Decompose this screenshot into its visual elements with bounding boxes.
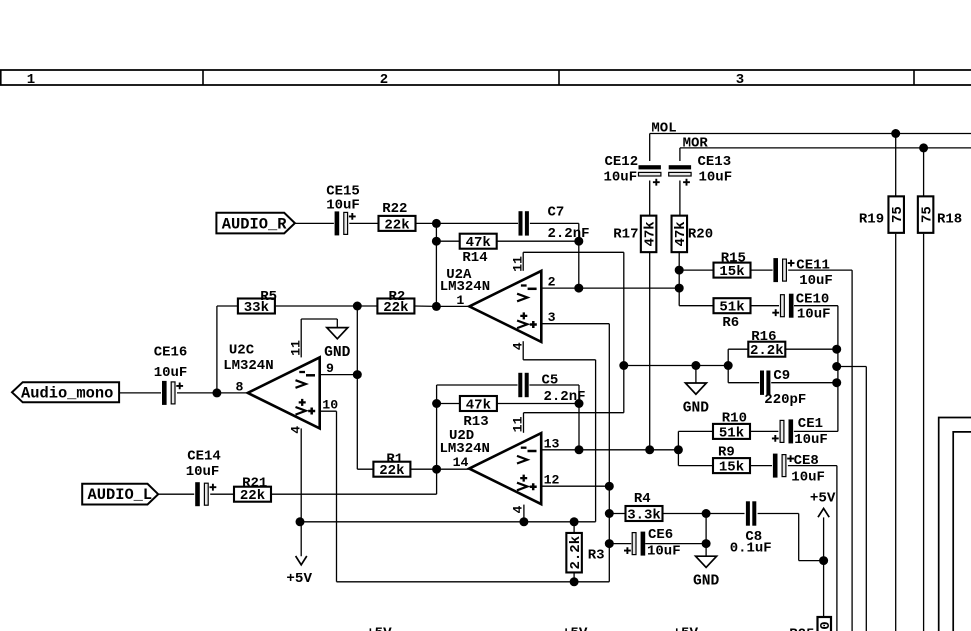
wire [823, 517, 825, 560]
junction [675, 284, 684, 293]
svg-text:15k: 15k [719, 460, 744, 476]
wire [728, 348, 748, 350]
svg-text:C9: C9 [773, 368, 790, 384]
resistor R21 [234, 476, 271, 505]
wire [320, 410, 337, 412]
wire [337, 581, 610, 583]
svg-text:R15: R15 [721, 250, 746, 266]
wire [541, 485, 609, 487]
svg-text:R18: R18 [937, 212, 962, 228]
wire [336, 319, 338, 328]
wire [436, 240, 459, 242]
wire [436, 222, 518, 224]
svg-text:4: 4 [288, 426, 303, 434]
svg-text:U2C: U2C [229, 342, 255, 358]
svg-text:0: 0 [818, 621, 834, 629]
svg-text:GND: GND [693, 574, 720, 590]
capacitor C8 [746, 501, 756, 525]
svg-text:CE6: CE6 [648, 527, 673, 543]
node pin13 [575, 445, 584, 454]
wire [679, 305, 713, 307]
op-amp U2D [469, 433, 541, 504]
svg-text:+5V: +5V [286, 571, 312, 587]
junction [519, 517, 528, 526]
svg-text:R16: R16 [751, 329, 776, 345]
power +5V (down arrow, left) [286, 556, 312, 587]
svg-text:R2: R2 [388, 289, 405, 305]
node Audio_mono [12, 382, 119, 402]
wire [216, 306, 218, 393]
wire [349, 222, 378, 224]
resistor R15 [714, 250, 751, 280]
svg-text:12: 12 [544, 473, 560, 488]
node +5V [819, 556, 828, 565]
capacitor C9 [760, 371, 770, 395]
wire [788, 269, 852, 271]
svg-text:CE16: CE16 [154, 344, 188, 360]
wire [678, 270, 680, 306]
node AUDIO_R [216, 213, 295, 234]
svg-text:2.2nF: 2.2nF [544, 389, 586, 405]
wire [523, 413, 525, 433]
svg-text:+5V: +5V [673, 626, 699, 631]
wire [578, 385, 580, 450]
resistor R5 [238, 289, 277, 316]
wire [497, 240, 579, 242]
svg-text:GND: GND [683, 401, 710, 417]
wire [578, 223, 580, 241]
wire [158, 493, 194, 495]
svg-text:10uF: 10uF [326, 197, 360, 213]
wire [530, 222, 579, 224]
wire [177, 392, 217, 394]
svg-text:R22: R22 [382, 201, 407, 217]
wire [357, 305, 377, 307]
node pin12 [605, 482, 614, 491]
node MOL [891, 129, 900, 138]
wire [799, 560, 824, 562]
capacitor CE8 [773, 454, 794, 478]
wire [541, 449, 678, 451]
wire [271, 493, 437, 495]
svg-text:10uF: 10uF [647, 544, 681, 560]
svg-text:C7: C7 [548, 204, 565, 220]
svg-text:R20: R20 [688, 226, 713, 242]
svg-text:LM324N: LM324N [223, 358, 273, 374]
svg-text:CE10: CE10 [796, 292, 830, 308]
svg-text:1: 1 [27, 72, 35, 88]
junction [724, 361, 733, 370]
wire [578, 241, 580, 288]
svg-text:4: 4 [511, 505, 526, 513]
wire [865, 367, 867, 631]
junction [691, 361, 700, 370]
wire [771, 382, 837, 384]
junction [832, 378, 841, 387]
svg-text:11: 11 [511, 416, 526, 432]
node GND net [619, 361, 628, 370]
wire [727, 349, 729, 365]
junction [432, 219, 441, 228]
wire [301, 318, 337, 320]
svg-text:C5: C5 [542, 373, 559, 389]
resistor R3 [566, 533, 604, 573]
wire [798, 514, 800, 561]
wire [437, 384, 518, 386]
wire [524, 412, 624, 414]
wire [750, 465, 772, 467]
wire [649, 134, 651, 162]
svg-text:R1: R1 [386, 452, 403, 468]
wire [573, 522, 575, 533]
svg-text:15k: 15k [719, 264, 744, 280]
junction [296, 517, 305, 526]
wire [275, 305, 357, 307]
junction [605, 509, 614, 518]
wire [836, 466, 838, 631]
wire [300, 521, 596, 523]
wire [679, 148, 681, 161]
junction [353, 302, 362, 311]
wire [661, 513, 706, 515]
svg-text:51k: 51k [719, 425, 744, 441]
capacitor CE14 [195, 482, 216, 506]
resistor R25 [789, 617, 834, 631]
junction [832, 362, 841, 371]
svg-text:3: 3 [736, 72, 744, 88]
svg-text:AUDIO_L: AUDIO_L [88, 486, 153, 504]
wire [415, 222, 436, 224]
wire [794, 305, 838, 307]
svg-text:2.2nF: 2.2nF [548, 226, 590, 242]
svg-text:R14: R14 [462, 250, 487, 266]
wire [609, 513, 626, 515]
wire [435, 223, 437, 306]
wire [823, 561, 825, 617]
resistor R22 [379, 201, 416, 234]
resistor R13 [460, 396, 497, 430]
wire [649, 181, 651, 216]
svg-text:10uF: 10uF [186, 464, 220, 480]
node connector box outer [939, 418, 971, 631]
wire [705, 514, 707, 544]
junction [832, 345, 841, 354]
svg-text:11: 11 [510, 256, 525, 272]
capacitor C7 [519, 211, 529, 235]
svg-text:2.2k: 2.2k [750, 343, 784, 359]
op-amp U2A [469, 271, 541, 342]
svg-text:3.3k: 3.3k [627, 507, 661, 523]
svg-text:10uF: 10uF [797, 306, 831, 322]
wire [624, 365, 728, 367]
node AUDIO_L [82, 484, 158, 505]
junction [432, 237, 441, 246]
wire [437, 403, 460, 405]
wire R19 top [895, 134, 897, 196]
svg-text:10uF: 10uF [799, 273, 833, 289]
svg-text:CE14: CE14 [187, 448, 221, 464]
wire [523, 505, 525, 522]
svg-text:GND: GND [324, 345, 351, 361]
resistor R9 [713, 444, 750, 475]
wire [645, 543, 706, 545]
ground [683, 383, 710, 417]
wire [623, 366, 625, 413]
wire [758, 513, 799, 515]
wire [678, 465, 713, 467]
svg-text:LM324N: LM324N [440, 279, 490, 295]
wire [300, 428, 302, 556]
wire [649, 253, 651, 450]
wire [541, 287, 679, 289]
svg-text:10uF: 10uF [794, 432, 828, 448]
svg-text:10uF: 10uF [604, 169, 638, 185]
svg-text:CE11: CE11 [796, 258, 830, 274]
wire [522, 252, 524, 270]
wire [497, 403, 579, 405]
wire [595, 360, 597, 522]
node pin1 [432, 302, 441, 311]
svg-text:10uF: 10uF [791, 469, 825, 485]
wire [529, 384, 579, 386]
wire [541, 323, 609, 325]
junction [575, 399, 584, 408]
svg-text:220pF: 220pF [764, 392, 806, 408]
wire [679, 269, 713, 271]
svg-text:47k: 47k [673, 221, 689, 246]
node pin2 [574, 284, 583, 293]
svg-text:11: 11 [288, 340, 303, 356]
svg-text:+5V: +5V [562, 626, 588, 631]
resistor R6 [714, 298, 751, 331]
wire [356, 375, 358, 470]
svg-text:R21: R21 [242, 476, 267, 492]
resistor R18 [918, 196, 962, 233]
svg-text:13: 13 [544, 436, 560, 451]
wire [750, 430, 778, 432]
svg-text:9: 9 [326, 361, 334, 376]
wire R18 top [923, 148, 925, 196]
wire [437, 468, 470, 470]
wire [217, 305, 238, 307]
junction [570, 577, 579, 586]
svg-text:AUDIO_R: AUDIO_R [222, 215, 287, 233]
wire [786, 348, 837, 350]
wire [608, 324, 610, 582]
svg-text:R10: R10 [722, 411, 747, 427]
wire MOL [650, 133, 971, 135]
capacitor CE10 [772, 294, 793, 318]
wire [119, 392, 161, 394]
wire [705, 544, 707, 557]
wire [788, 465, 837, 467]
wire [300, 319, 302, 357]
svg-text:2: 2 [548, 275, 556, 290]
svg-text:47k: 47k [466, 235, 491, 251]
wire [679, 181, 681, 216]
svg-text:10uF: 10uF [699, 169, 733, 185]
capacitor CE15 [335, 211, 356, 235]
wire [336, 411, 338, 582]
wire [573, 573, 575, 582]
wire [410, 468, 436, 470]
junction [432, 399, 441, 408]
wire [677, 431, 679, 465]
node pin8 [212, 388, 221, 397]
svg-text:R3: R3 [588, 547, 605, 563]
wire [678, 430, 713, 432]
resistor R19 [859, 196, 906, 233]
junction [645, 445, 654, 454]
wire [851, 270, 853, 631]
resistor R20 [672, 216, 714, 253]
junction [605, 539, 614, 548]
wire [623, 252, 625, 365]
op-amp U2C [248, 357, 320, 428]
svg-text:75: 75 [890, 206, 906, 223]
wire [837, 306, 839, 432]
svg-text:CE8: CE8 [794, 453, 819, 469]
wire [695, 366, 697, 384]
wire [678, 253, 680, 270]
svg-text:R5: R5 [260, 289, 277, 305]
svg-text:51k: 51k [719, 300, 744, 316]
resistor R17 [613, 216, 658, 253]
svg-text:10uF: 10uF [154, 365, 188, 381]
svg-text:R6: R6 [722, 315, 739, 331]
svg-text:MOR: MOR [683, 136, 709, 152]
svg-text:2.2k: 2.2k [568, 536, 584, 570]
wire [356, 306, 358, 375]
power +5V (up arrow, right) [810, 491, 836, 518]
wire [751, 305, 779, 307]
capacitor CE11 [773, 258, 794, 282]
svg-text:R19: R19 [859, 212, 884, 228]
svg-text:14: 14 [453, 455, 469, 470]
capacitor CE1 [772, 419, 793, 443]
wire [794, 430, 838, 432]
wire MOR [680, 147, 971, 149]
capacitor CE13 [669, 165, 691, 185]
wire R19 bottom [895, 234, 897, 631]
svg-text:3: 3 [548, 310, 556, 325]
svg-text:4: 4 [511, 342, 526, 350]
svg-text:8: 8 [236, 380, 244, 395]
junction [574, 237, 583, 246]
node connector box inner [953, 432, 971, 631]
svg-text:R25: R25 [789, 627, 814, 631]
wire [523, 251, 624, 253]
resistor R16 [748, 329, 785, 359]
svg-text:R17: R17 [613, 226, 638, 242]
wire [706, 513, 744, 515]
wire [414, 305, 436, 307]
resistor R14 [460, 234, 497, 266]
svg-text:MOL: MOL [651, 120, 676, 136]
wire [837, 366, 867, 368]
svg-text:+5V: +5V [810, 491, 836, 507]
svg-text:47k: 47k [466, 397, 491, 413]
svg-text:CE1: CE1 [798, 416, 823, 432]
svg-text:75: 75 [919, 206, 935, 223]
ground CE6 [693, 556, 720, 590]
svg-text:CE13: CE13 [698, 154, 732, 170]
wire [728, 382, 759, 384]
capacitor CE16 [162, 381, 183, 405]
wire [357, 468, 373, 470]
svg-text:R4: R4 [634, 491, 651, 507]
svg-text:2: 2 [380, 72, 388, 88]
resistor R10 [713, 411, 750, 442]
wire [217, 392, 248, 394]
wire [436, 385, 438, 494]
wire [320, 374, 358, 376]
svg-text:Audio_mono: Audio_mono [21, 384, 113, 402]
wire [436, 305, 469, 307]
capacitor CE6 [624, 532, 645, 556]
svg-text:1: 1 [456, 293, 464, 308]
resistor R1 [373, 452, 410, 480]
capacitor C5 [518, 373, 528, 397]
wire [295, 222, 334, 224]
wire [523, 359, 595, 361]
junction [570, 517, 579, 526]
svg-text:10: 10 [322, 398, 338, 413]
wire [609, 543, 631, 545]
svg-text:CE12: CE12 [605, 154, 639, 170]
junction [702, 509, 711, 518]
node pin14 [432, 465, 441, 474]
ground U2C pin11 [324, 328, 351, 362]
svg-text:22k: 22k [384, 217, 409, 233]
wire [751, 269, 773, 271]
wire R18 bottom [923, 234, 925, 631]
resistor R2 [377, 289, 414, 316]
wire [210, 493, 234, 495]
svg-text:47k: 47k [642, 221, 658, 246]
junction [674, 445, 683, 454]
svg-text:+5V: +5V [366, 626, 392, 631]
svg-text:R9: R9 [718, 444, 735, 460]
resistor R4 [626, 491, 663, 523]
svg-text:0.1uF: 0.1uF [730, 541, 772, 557]
junction [675, 266, 684, 275]
wire [522, 341, 524, 360]
node pin9 [353, 370, 362, 379]
node MOR [919, 143, 928, 152]
junction [702, 539, 711, 548]
wire [727, 366, 729, 383]
capacitor CE12 [639, 165, 661, 185]
